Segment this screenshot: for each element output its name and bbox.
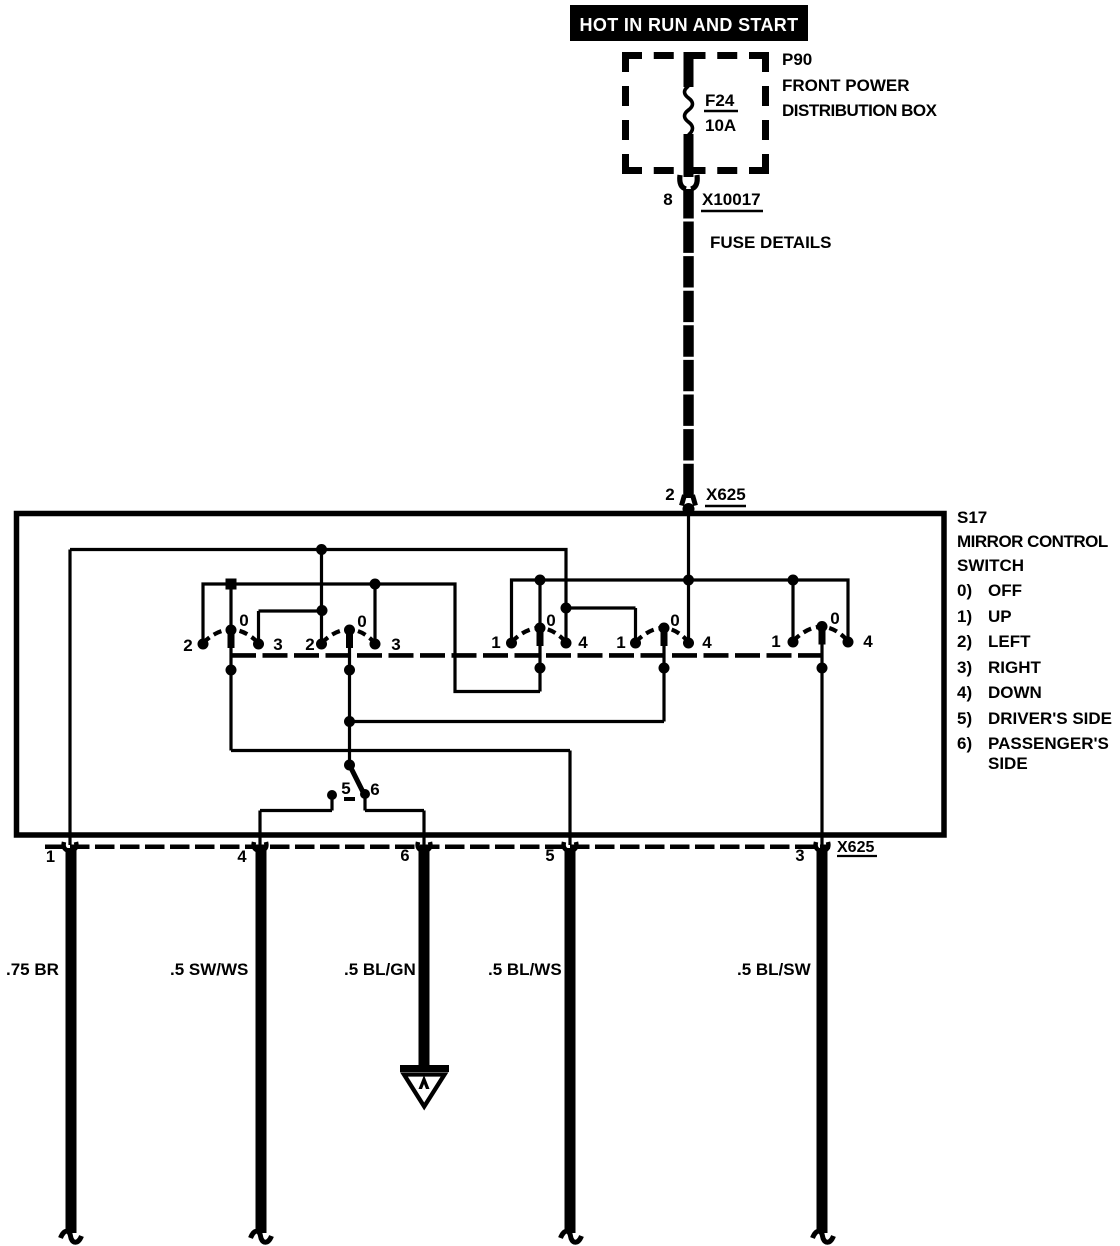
svg-text:4: 4 [237, 848, 247, 866]
svg-text:0: 0 [239, 611, 248, 630]
svg-text:2: 2 [183, 636, 192, 655]
svg-text:2: 2 [305, 635, 314, 654]
svg-text:1: 1 [491, 633, 500, 652]
svg-text:S17: S17 [957, 508, 987, 527]
svg-text:0: 0 [357, 612, 366, 631]
svg-text:1: 1 [46, 848, 55, 866]
svg-text:PASSENGER'S: PASSENGER'S [988, 734, 1109, 753]
svg-text:5: 5 [545, 847, 554, 865]
svg-text:4): 4) [957, 683, 972, 702]
svg-text:4: 4 [702, 633, 712, 652]
svg-text:HOT IN RUN AND START: HOT IN RUN AND START [580, 15, 799, 35]
svg-text:MIRROR CONTROL: MIRROR CONTROL [957, 532, 1108, 551]
svg-text:DOWN: DOWN [988, 683, 1042, 702]
svg-text:.5 BL/WS: .5 BL/WS [488, 960, 562, 979]
svg-text:6: 6 [370, 780, 379, 799]
svg-text:8: 8 [663, 190, 672, 209]
svg-text:1): 1) [957, 607, 972, 626]
svg-text:DISTRIBUTION BOX: DISTRIBUTION BOX [782, 101, 938, 120]
svg-text:3): 3) [957, 658, 972, 677]
svg-text:6: 6 [400, 847, 409, 865]
svg-text:RIGHT: RIGHT [988, 658, 1042, 677]
svg-text:X625: X625 [706, 485, 746, 504]
svg-text:2): 2) [957, 632, 972, 651]
svg-text:.75 BR: .75 BR [6, 960, 59, 979]
svg-text:P90: P90 [782, 50, 812, 69]
svg-text:LEFT: LEFT [988, 632, 1031, 651]
svg-text:1: 1 [771, 632, 780, 651]
svg-text:3: 3 [795, 847, 804, 865]
svg-text:4: 4 [863, 632, 873, 651]
svg-text:OFF: OFF [988, 581, 1022, 600]
svg-text:SWITCH: SWITCH [957, 556, 1024, 575]
svg-text:0: 0 [830, 609, 839, 628]
svg-text:SIDE: SIDE [988, 754, 1028, 773]
svg-text:4: 4 [578, 633, 588, 652]
svg-text:3: 3 [391, 635, 400, 654]
svg-text:0): 0) [957, 581, 972, 600]
svg-text:0: 0 [670, 611, 679, 630]
svg-text:3: 3 [273, 635, 282, 654]
svg-text:6): 6) [957, 734, 972, 753]
svg-text:FUSE DETAILS: FUSE DETAILS [710, 233, 832, 252]
svg-text:5): 5) [957, 709, 972, 728]
svg-text:UP: UP [988, 607, 1012, 626]
svg-text:2: 2 [665, 485, 674, 504]
svg-text:.5 BL/GN: .5 BL/GN [344, 960, 416, 979]
svg-text:.5 BL/SW: .5 BL/SW [737, 960, 812, 979]
svg-text:F24: F24 [705, 91, 735, 110]
svg-text:DRIVER'S SIDE: DRIVER'S SIDE [988, 709, 1112, 728]
svg-text:FRONT POWER: FRONT POWER [782, 76, 910, 95]
svg-text:X625: X625 [837, 839, 874, 856]
svg-text:1: 1 [616, 633, 625, 652]
svg-text:.5 SW/WS: .5 SW/WS [170, 960, 248, 979]
svg-text:0: 0 [546, 611, 555, 630]
svg-text:10A: 10A [705, 116, 736, 135]
svg-text:5: 5 [341, 779, 350, 798]
svg-text:X10017: X10017 [702, 190, 761, 209]
